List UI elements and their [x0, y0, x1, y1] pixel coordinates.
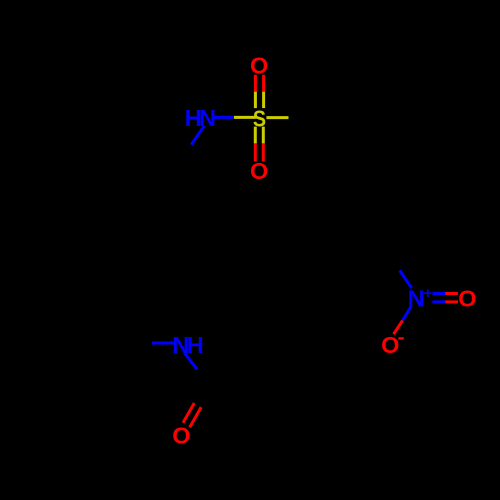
wire S=O bottom double bond line2 yellow half — [262, 127, 265, 144]
wire S-CH3 bond yellow half — [266, 116, 288, 119]
wire S=O bottom double bond line1 red half — [254, 143, 257, 161]
wire N-S bond blue half — [214, 116, 234, 119]
wire ringC-N nitro bond blue half — [400, 270, 412, 288]
svg-text:S: S — [253, 105, 266, 132]
wire S=O top double bond line1 red half — [254, 75, 257, 92]
svg-text:+: + — [423, 286, 431, 302]
wire S=O bottom double bond line1 yellow half — [254, 127, 257, 144]
wire C=O amide double bond line2 red half — [190, 407, 201, 427]
wire HN-CH2 bond blue half — [191, 126, 204, 145]
wire N=O nitro double bond top line blue half — [432, 292, 445, 295]
wire S=O top double bond line2 yellow half — [262, 92, 265, 108]
wire S=O bottom double bond line2 red half — [262, 143, 265, 161]
svg-text:O: O — [250, 158, 268, 184]
wire S=O top double bond line2 red half — [262, 75, 265, 92]
wire ringC-NH amide bond blue half — [152, 342, 174, 345]
wire N=O nitro double bond bottom line red half — [445, 300, 458, 303]
svg-text:N: N — [199, 105, 216, 131]
svg-text:N: N — [408, 285, 425, 311]
wire N-S bond yellow half — [234, 116, 256, 119]
svg-text:O: O — [458, 286, 476, 312]
wire N=O nitro double bond bottom line blue half — [432, 300, 445, 303]
svg-text:H: H — [187, 332, 204, 358]
wire N-O minus bond red half — [394, 320, 403, 334]
svg-text:O: O — [172, 423, 190, 449]
wire NH-C(=O) bond blue half — [184, 353, 197, 370]
wire S=O top double bond line1 yellow half — [254, 92, 257, 108]
wire N=O nitro double bond top line red half — [445, 292, 458, 295]
wire N-O minus bond blue half — [403, 307, 411, 321]
node - charge sign of nitro oxygen — [398, 337, 403, 340]
svg-text:O: O — [250, 53, 268, 79]
wire C=O amide double bond line1 red half — [183, 403, 194, 423]
svg-text:O: O — [381, 332, 399, 358]
